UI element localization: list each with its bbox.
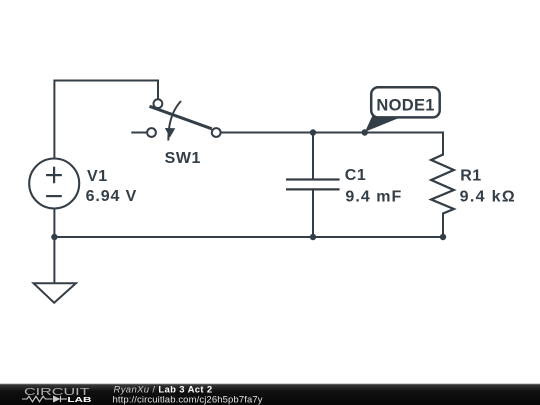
svg-text:LAB: LAB [67, 395, 92, 404]
svg-text:http://circuitlab.com/cj26h5pb: http://circuitlab.com/cj26h5pb7fa7y [113, 394, 263, 405]
svg-text:6.94 V: 6.94 V [86, 188, 138, 205]
svg-text:SW1: SW1 [165, 150, 201, 167]
svg-text:R1: R1 [460, 168, 482, 185]
svg-text:C1: C1 [345, 167, 367, 184]
svg-text:V1: V1 [87, 168, 108, 185]
svg-text:NODE1: NODE1 [376, 96, 434, 114]
svg-text:9.4 kΩ: 9.4 kΩ [460, 188, 517, 205]
svg-text:9.4 mF: 9.4 mF [345, 188, 402, 205]
